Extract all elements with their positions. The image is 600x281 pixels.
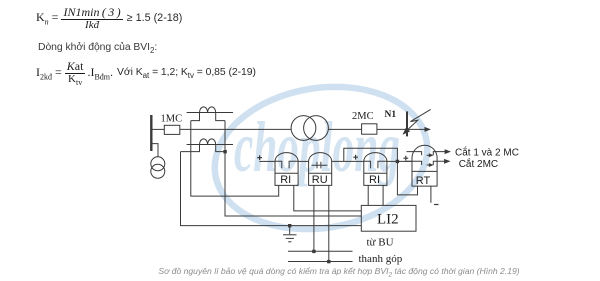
plus sign 3 <box>403 156 408 161</box>
breaker 1MC <box>164 125 180 134</box>
relay RI1 <box>275 153 298 187</box>
lightning arrow fault N1 <box>406 109 431 131</box>
RT contact row 2 <box>407 161 450 165</box>
RT minus wire <box>430 186 432 203</box>
svg-text:2MC: 2MC <box>352 111 374 122</box>
rail outer left <box>181 152 362 226</box>
ground <box>289 226 291 235</box>
wire to source <box>151 144 158 157</box>
relay RI3 <box>364 153 387 187</box>
rail left from top CT <box>191 121 279 197</box>
svg-text:RI: RI <box>280 174 291 186</box>
RI3 wires to LI2 <box>367 185 369 205</box>
relay RT <box>407 145 452 187</box>
RU wires down <box>313 185 315 251</box>
busbar BU bottom <box>288 261 353 263</box>
wire main line segment 2 <box>180 128 291 130</box>
junction dots <box>312 250 315 253</box>
CT bottom windings <box>200 139 216 145</box>
wire main line segment 1 <box>151 128 164 130</box>
CT top secondary bracket <box>191 113 200 121</box>
wire main line segment 4 with end arrow <box>377 128 429 130</box>
wire RI3-RT <box>387 160 412 162</box>
bypass loop over RI3 <box>344 148 398 161</box>
rail right from top CT <box>225 121 361 216</box>
CT bottom secondary bracket <box>181 145 200 152</box>
source/generator G <box>151 157 165 171</box>
CT top windings <box>200 107 216 113</box>
svg-text:từ BU: từ BU <box>367 237 394 249</box>
CT bottom primary stub <box>187 144 233 146</box>
busbar left <box>150 115 152 151</box>
svg-text:LI2: LI2 <box>377 212 399 228</box>
wire plus supply to RI1 <box>259 160 275 162</box>
RT return wire <box>397 161 417 195</box>
busbar BU top <box>288 250 353 252</box>
svg-text:Cắt 2MC: Cắt 2MC <box>459 157 498 170</box>
svg-text:RU: RU <box>312 174 328 186</box>
CT top primary stub <box>187 112 233 114</box>
svg-text:RT: RT <box>416 175 431 187</box>
wire main line segment 3 <box>328 128 361 130</box>
plus sign 2 <box>353 155 358 160</box>
junction dot <box>223 150 226 153</box>
formula I_2kd <box>36 60 256 87</box>
junction dot RT node <box>396 160 399 163</box>
text line <box>38 42 157 55</box>
relay RU <box>309 153 332 187</box>
wire RU-RI3 <box>332 160 364 162</box>
svg-text:Cắt 1 và 2 MC: Cắt 1 và 2 MC <box>455 146 519 159</box>
breaker 2MC <box>362 124 377 134</box>
caption <box>39 266 600 279</box>
relay LI2 box <box>361 205 416 231</box>
wire RI1-RU <box>298 160 309 162</box>
svg-text:RI: RI <box>369 174 380 186</box>
RT contact row 1 <box>407 152 450 156</box>
junction dot ground <box>288 224 291 227</box>
svg-text:thanh góp: thanh góp <box>359 253 403 265</box>
fault bar <box>406 111 408 136</box>
svg-text:1MC: 1MC <box>161 114 183 125</box>
svg-text:N1: N1 <box>385 110 397 120</box>
transformer T1 <box>291 116 316 141</box>
formula K_n <box>36 6 182 31</box>
plus sign 1 <box>257 155 262 160</box>
RI1 right wire to LI2 <box>294 185 362 211</box>
minus sign <box>434 204 439 206</box>
